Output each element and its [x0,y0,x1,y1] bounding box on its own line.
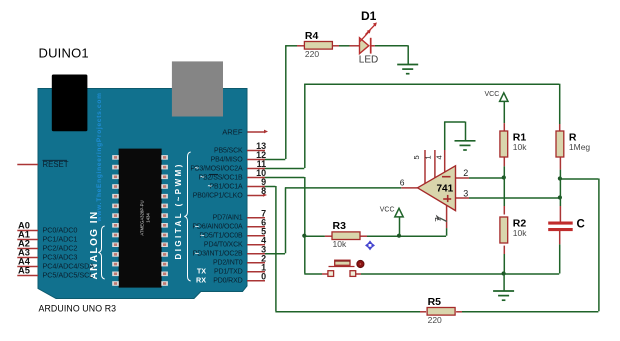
svg-text:DUINO1: DUINO1 [39,46,89,61]
svg-text:741: 741 [436,183,453,194]
svg-text:PC3/ADC3: PC3/ADC3 [43,252,78,261]
svg-text:~: ~ [200,231,205,240]
svg-text:PC2/ADC2: PC2/ADC2 [43,243,78,252]
svg-text:8: 8 [261,186,266,196]
svg-text:4: 4 [435,155,444,159]
svg-text:220: 220 [305,49,319,59]
svg-text:D1: D1 [361,9,377,23]
svg-text:RX: RX [196,276,206,285]
svg-text:~: ~ [195,164,200,173]
svg-text:~: ~ [195,249,200,258]
svg-text:PC5/ADC5/SCL: PC5/ADC5/SCL [43,270,94,279]
svg-text:~: ~ [200,173,205,182]
svg-text:6: 6 [400,178,405,188]
svg-text:10k: 10k [513,142,527,152]
svg-text:10k: 10k [333,239,347,249]
svg-text:www.TheEngineeringProjects.com: www.TheEngineeringProjects.com [96,92,103,222]
svg-text:R3: R3 [333,220,347,232]
svg-text:R4: R4 [305,30,319,42]
svg-text:RESET: RESET [43,160,69,169]
svg-text:PD3/INT1/OC2B: PD3/INT1/OC2B [193,251,243,258]
svg-text:2: 2 [463,168,468,178]
svg-text:ATMEGA328P-PU: ATMEGA328P-PU [140,200,145,235]
svg-text:PB0/ICP1/CLKO: PB0/ICP1/CLKO [193,192,243,199]
svg-text:PD1/TXD: PD1/TXD [214,269,243,276]
svg-text:~: ~ [208,182,213,191]
svg-text:1: 1 [424,155,433,159]
svg-text:PC0/ADC0: PC0/ADC0 [43,225,78,234]
svg-text:PB5/SCK: PB5/SCK [214,147,243,154]
svg-text:TX: TX [197,267,206,276]
svg-text:1434: 1434 [146,213,151,223]
svg-text:PB1/OC1A: PB1/OC1A [209,183,243,190]
svg-text:PD2/INT0: PD2/INT0 [213,260,243,267]
svg-text:1Meg: 1Meg [569,142,591,152]
svg-text:~: ~ [195,222,200,231]
svg-text:0: 0 [261,271,266,281]
svg-text:PB4/MISO: PB4/MISO [211,156,244,163]
svg-text:PC1/ADC1: PC1/ADC1 [43,234,78,243]
svg-text:LED: LED [359,55,378,66]
svg-text:R5: R5 [428,296,442,308]
svg-text:220: 220 [428,315,442,325]
svg-text:PB2/SS/OC1B: PB2/SS/OC1B [199,174,243,181]
svg-text:C: C [577,219,585,231]
svg-text:5: 5 [412,155,421,159]
svg-text:PD6/AIN0/OC0A: PD6/AIN0/OC0A [192,224,243,231]
svg-text:10k: 10k [513,228,527,238]
svg-text:DIGITAL (~PWM): DIGITAL (~PWM) [174,162,183,259]
svg-text:3: 3 [463,188,468,198]
svg-text:PC4/ADC4/SDA: PC4/ADC4/SDA [43,261,95,270]
svg-text:PD4/T0/XCK: PD4/T0/XCK [204,242,243,249]
svg-text:AREF: AREF [222,127,243,136]
svg-text:ARDUINO UNO R3: ARDUINO UNO R3 [39,303,117,313]
svg-text:PD0/RXD: PD0/RXD [213,278,242,285]
svg-text:A5: A5 [18,266,30,276]
svg-text:PD5/T1/OC0B: PD5/T1/OC0B [199,233,243,240]
svg-text:VCC: VCC [380,207,395,214]
svg-text:PD7/AIN1: PD7/AIN1 [213,215,243,222]
svg-text:VCC: VCC [485,91,500,98]
